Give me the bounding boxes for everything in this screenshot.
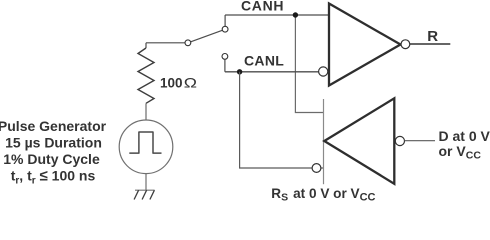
svg-text:1% Duty Cycle: 1% Duty Cycle xyxy=(3,151,100,167)
svg-text:CANH: CANH xyxy=(241,0,284,13)
svg-text:Pulse Generator: Pulse Generator xyxy=(0,118,107,134)
svg-text:CANL: CANL xyxy=(244,52,284,68)
svg-text:D at 0 V: D at 0 V xyxy=(439,128,490,144)
svg-text:100: 100 xyxy=(160,75,183,90)
svg-text:R: R xyxy=(427,28,438,45)
svg-text:Ω: Ω xyxy=(184,76,197,91)
svg-text:15 µs Duration: 15 µs Duration xyxy=(5,134,102,150)
